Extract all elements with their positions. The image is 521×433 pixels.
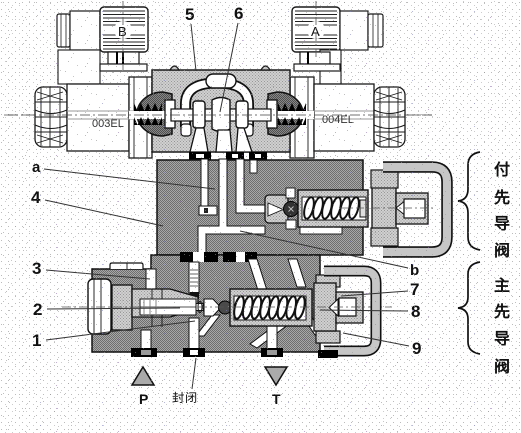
left solenoid housing <box>67 77 152 158</box>
lock gland <box>112 285 132 330</box>
centerline main valve <box>4 114 432 116</box>
interface seals middle-bottom <box>180 252 257 262</box>
label fengbi (closed) <box>192 358 196 389</box>
pilot solenoid A assembly <box>292 7 383 52</box>
solenoid B stem <box>100 52 147 71</box>
arch leg feet <box>181 124 191 136</box>
push rod <box>196 304 210 311</box>
coil hatch A <box>295 11 337 49</box>
brace main (lower) <box>458 262 480 354</box>
adjusting screw body <box>132 289 198 317</box>
channel slot left <box>146 269 156 291</box>
end cap <box>88 279 111 334</box>
threaded port above poppet <box>189 262 199 299</box>
channel stub under seal3 <box>250 160 257 173</box>
left push pin <box>165 100 175 128</box>
text zhu xian dao fa <box>495 278 510 374</box>
drain funnels below spool <box>190 128 252 152</box>
solenoid A stem <box>294 50 341 84</box>
spool center land <box>212 98 230 132</box>
pilot bracket cover <box>383 167 447 252</box>
main bracket cover <box>324 271 376 351</box>
text fu xian dao fa <box>495 162 510 258</box>
main plug <box>314 283 363 331</box>
spool shaft <box>171 109 271 121</box>
right solenoid housing <box>290 77 374 158</box>
right armature pocket <box>268 92 303 136</box>
left return spring <box>134 103 162 125</box>
drain slot diagonal <box>196 315 220 336</box>
channel V3 and feed to seat <box>236 159 265 213</box>
bridge top capsule <box>206 74 236 88</box>
arrow T <box>265 367 287 385</box>
pilot cartridge sleeve <box>298 190 368 227</box>
right push pin <box>267 100 277 128</box>
armature rod left <box>129 111 169 119</box>
under-sleeve drain gap <box>300 226 342 234</box>
spool land right <box>236 101 248 128</box>
main valve body <box>152 66 290 152</box>
armature rod right <box>274 111 314 119</box>
centerline B <box>122 1 124 70</box>
pilot poppet ball <box>284 202 299 217</box>
P port channel <box>141 330 151 352</box>
centerline bottom cartridge <box>62 306 392 308</box>
port seals top interface <box>189 152 267 160</box>
pilot spring <box>302 196 360 219</box>
connector block B <box>58 50 100 84</box>
pilot adjuster plug <box>372 186 428 231</box>
drain slot diagonal bracket side <box>301 310 321 335</box>
bridge arch passage <box>186 83 249 127</box>
boss tab on block top <box>110 263 143 269</box>
left solenoid knurled nut <box>35 87 67 147</box>
main spring sleeve <box>230 289 312 326</box>
pilot block (middle, item 4) <box>157 160 363 255</box>
cartridge collar shoulders <box>371 170 398 188</box>
T port channel <box>267 308 277 352</box>
right solenoid knurled nut <box>374 87 405 147</box>
brace pilot (upper) <box>458 152 480 250</box>
main pilot block (bottom) <box>92 255 320 352</box>
bottom seals <box>131 348 338 358</box>
channel V1 <box>199 159 217 215</box>
right return spring <box>278 103 306 125</box>
main poppet ball <box>219 301 232 314</box>
coil hatch B <box>103 11 145 49</box>
main poppet seat <box>204 299 221 316</box>
diagonal channels to T <box>248 259 306 306</box>
spool land left <box>193 101 205 128</box>
main plug shoulders <box>316 275 340 287</box>
centerline pilot cartridge <box>340 207 436 209</box>
centerline overlay top valve <box>8 114 432 116</box>
arrow P <box>132 367 154 385</box>
centerline A <box>315 1 317 60</box>
poppet guide slots <box>286 188 295 198</box>
main spring <box>232 295 306 319</box>
channel V2 with jog to seat outlet <box>198 159 265 256</box>
left armature pocket <box>137 92 172 136</box>
blocked port channel <box>189 318 199 352</box>
pilot cartridge seat <box>265 195 288 223</box>
drain slot diagonal T side <box>250 320 289 348</box>
pilot spring small <box>198 302 212 313</box>
pilot solenoid B assembly <box>57 7 148 52</box>
